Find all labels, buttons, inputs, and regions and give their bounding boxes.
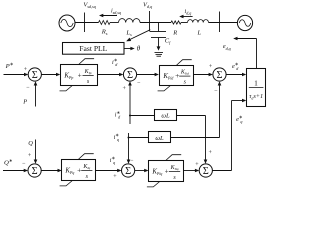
svg-text:+: + — [209, 150, 213, 156]
wire sum3 to transfer block — [226, 74, 243, 76]
svg-text:id,q: id,q — [185, 9, 192, 17]
svg-text:Fast PLL: Fast PLL — [79, 44, 107, 53]
PI block K_Piq + K_Iiq/s — [149, 161, 184, 182]
svg-text:P: P — [22, 98, 27, 105]
bus bar right — [219, 12, 221, 33]
wire R to L — [181, 22, 188, 24]
wire L to converter — [209, 22, 238, 24]
svg-text:+: + — [175, 71, 179, 80]
resistor Rs — [99, 21, 111, 25]
svg-text:Q: Q — [28, 140, 33, 147]
PI block K_Pp + K_Ip/s — [61, 65, 98, 86]
summer id (sum2) — [123, 68, 136, 81]
transfer function block 1/(tau_a s+1) — [247, 69, 266, 107]
AC source left (grid V_sd,sq) — [59, 15, 75, 31]
Fast PLL block — [63, 43, 125, 55]
wire sum2q to PI-iq — [135, 170, 146, 172]
P feedback wire — [35, 84, 37, 107]
filter capacitor Cf — [158, 23, 160, 32]
wire wL(q) output up to sum3 — [171, 137, 220, 139]
svg-text:Σ: Σ — [125, 166, 131, 177]
svg-text:1: 1 — [254, 79, 258, 88]
svg-text:L: L — [197, 29, 202, 36]
resistor R — [171, 21, 181, 24]
svg-text:Σ: Σ — [203, 166, 209, 177]
block wL (d axis) — [155, 110, 177, 121]
ground symbol — [155, 52, 164, 54]
svg-text:Σ: Σ — [32, 70, 38, 81]
i_q input wire from above — [128, 133, 130, 161]
svg-text:isd,sq: isd,sq — [111, 8, 121, 16]
PLL tap wire from Vdq bus — [129, 30, 151, 40]
svg-text:+: + — [123, 86, 127, 92]
svg-text:θ: θ — [137, 44, 141, 52]
svg-text:+: + — [78, 70, 82, 79]
theta output arrow — [124, 48, 132, 50]
summer iq (sum2q) — [122, 164, 135, 177]
e_d,q feedback wire to converter — [256, 39, 258, 69]
bus bar left — [84, 13, 86, 33]
summer P (sum1) — [28, 68, 41, 81]
summer ed (sum3) — [213, 68, 226, 81]
wire iq* tap to wL block q — [129, 137, 149, 139]
PI block K_Pq + K_Iq/s — [62, 160, 96, 181]
inductor Ls — [119, 19, 141, 23]
wire wL(d) output down to sum4q — [177, 115, 206, 117]
svg-text:R: R — [172, 29, 177, 36]
svg-text:+: + — [24, 67, 28, 73]
wire sum1q to PI-Q — [41, 170, 59, 172]
wire sum1 to PI-P — [41, 74, 57, 76]
wire source to Rs — [75, 22, 99, 24]
wire P* input — [4, 74, 26, 76]
current arrow i_sd,sq — [101, 15, 118, 17]
current arrow i_d,q — [181, 16, 193, 18]
limiter marks PI-Q — [78, 154, 94, 160]
inductor L — [188, 20, 209, 23]
svg-text:τas+1: τas+1 — [249, 93, 263, 100]
junction node iq — [128, 137, 130, 139]
svg-text:i∗q: i∗q — [110, 156, 115, 166]
junction node id — [129, 115, 131, 117]
wire Rs to Ls — [110, 22, 119, 24]
wire Q* input — [3, 170, 25, 172]
svg-text:Σ: Σ — [127, 70, 133, 81]
summer Q (sum1q) — [28, 164, 41, 177]
svg-text:+: + — [77, 165, 81, 174]
wire PI-P to sum2 — [98, 74, 121, 76]
svg-text:Σ: Σ — [217, 70, 223, 81]
AC source right (converter) — [237, 15, 252, 30]
summer eq (sum4q) — [199, 164, 212, 177]
svg-text:Σ: Σ — [32, 166, 38, 177]
svg-text:+: + — [165, 166, 169, 175]
bus bar middle (V_dq node) — [149, 11, 151, 32]
svg-text:ωL: ωL — [155, 135, 164, 142]
wire Ls to R — [140, 22, 171, 24]
wire sum2 to PI-id — [137, 74, 156, 76]
wire PI-iq to sum4q — [184, 170, 197, 172]
wire id* tap to wL block d — [130, 115, 155, 117]
svg-text:i∗q: i∗q — [114, 133, 119, 143]
wire PI-id to sum3 — [194, 74, 210, 76]
block wL (q axis) — [149, 132, 171, 143]
limiter marks PI-P — [79, 59, 95, 65]
svg-text:ωL: ωL — [161, 113, 170, 120]
eq* output wire to transfer block — [212, 170, 231, 172]
limiter marks PI-id — [176, 60, 192, 66]
i_d input wire from below — [129, 84, 131, 124]
PI block K_Pid + K_Iid/s — [160, 66, 194, 86]
limiter marks PI-iq — [166, 155, 182, 161]
wire PI-Q to sum2q — [96, 170, 119, 172]
Q input wire — [35, 140, 37, 162]
